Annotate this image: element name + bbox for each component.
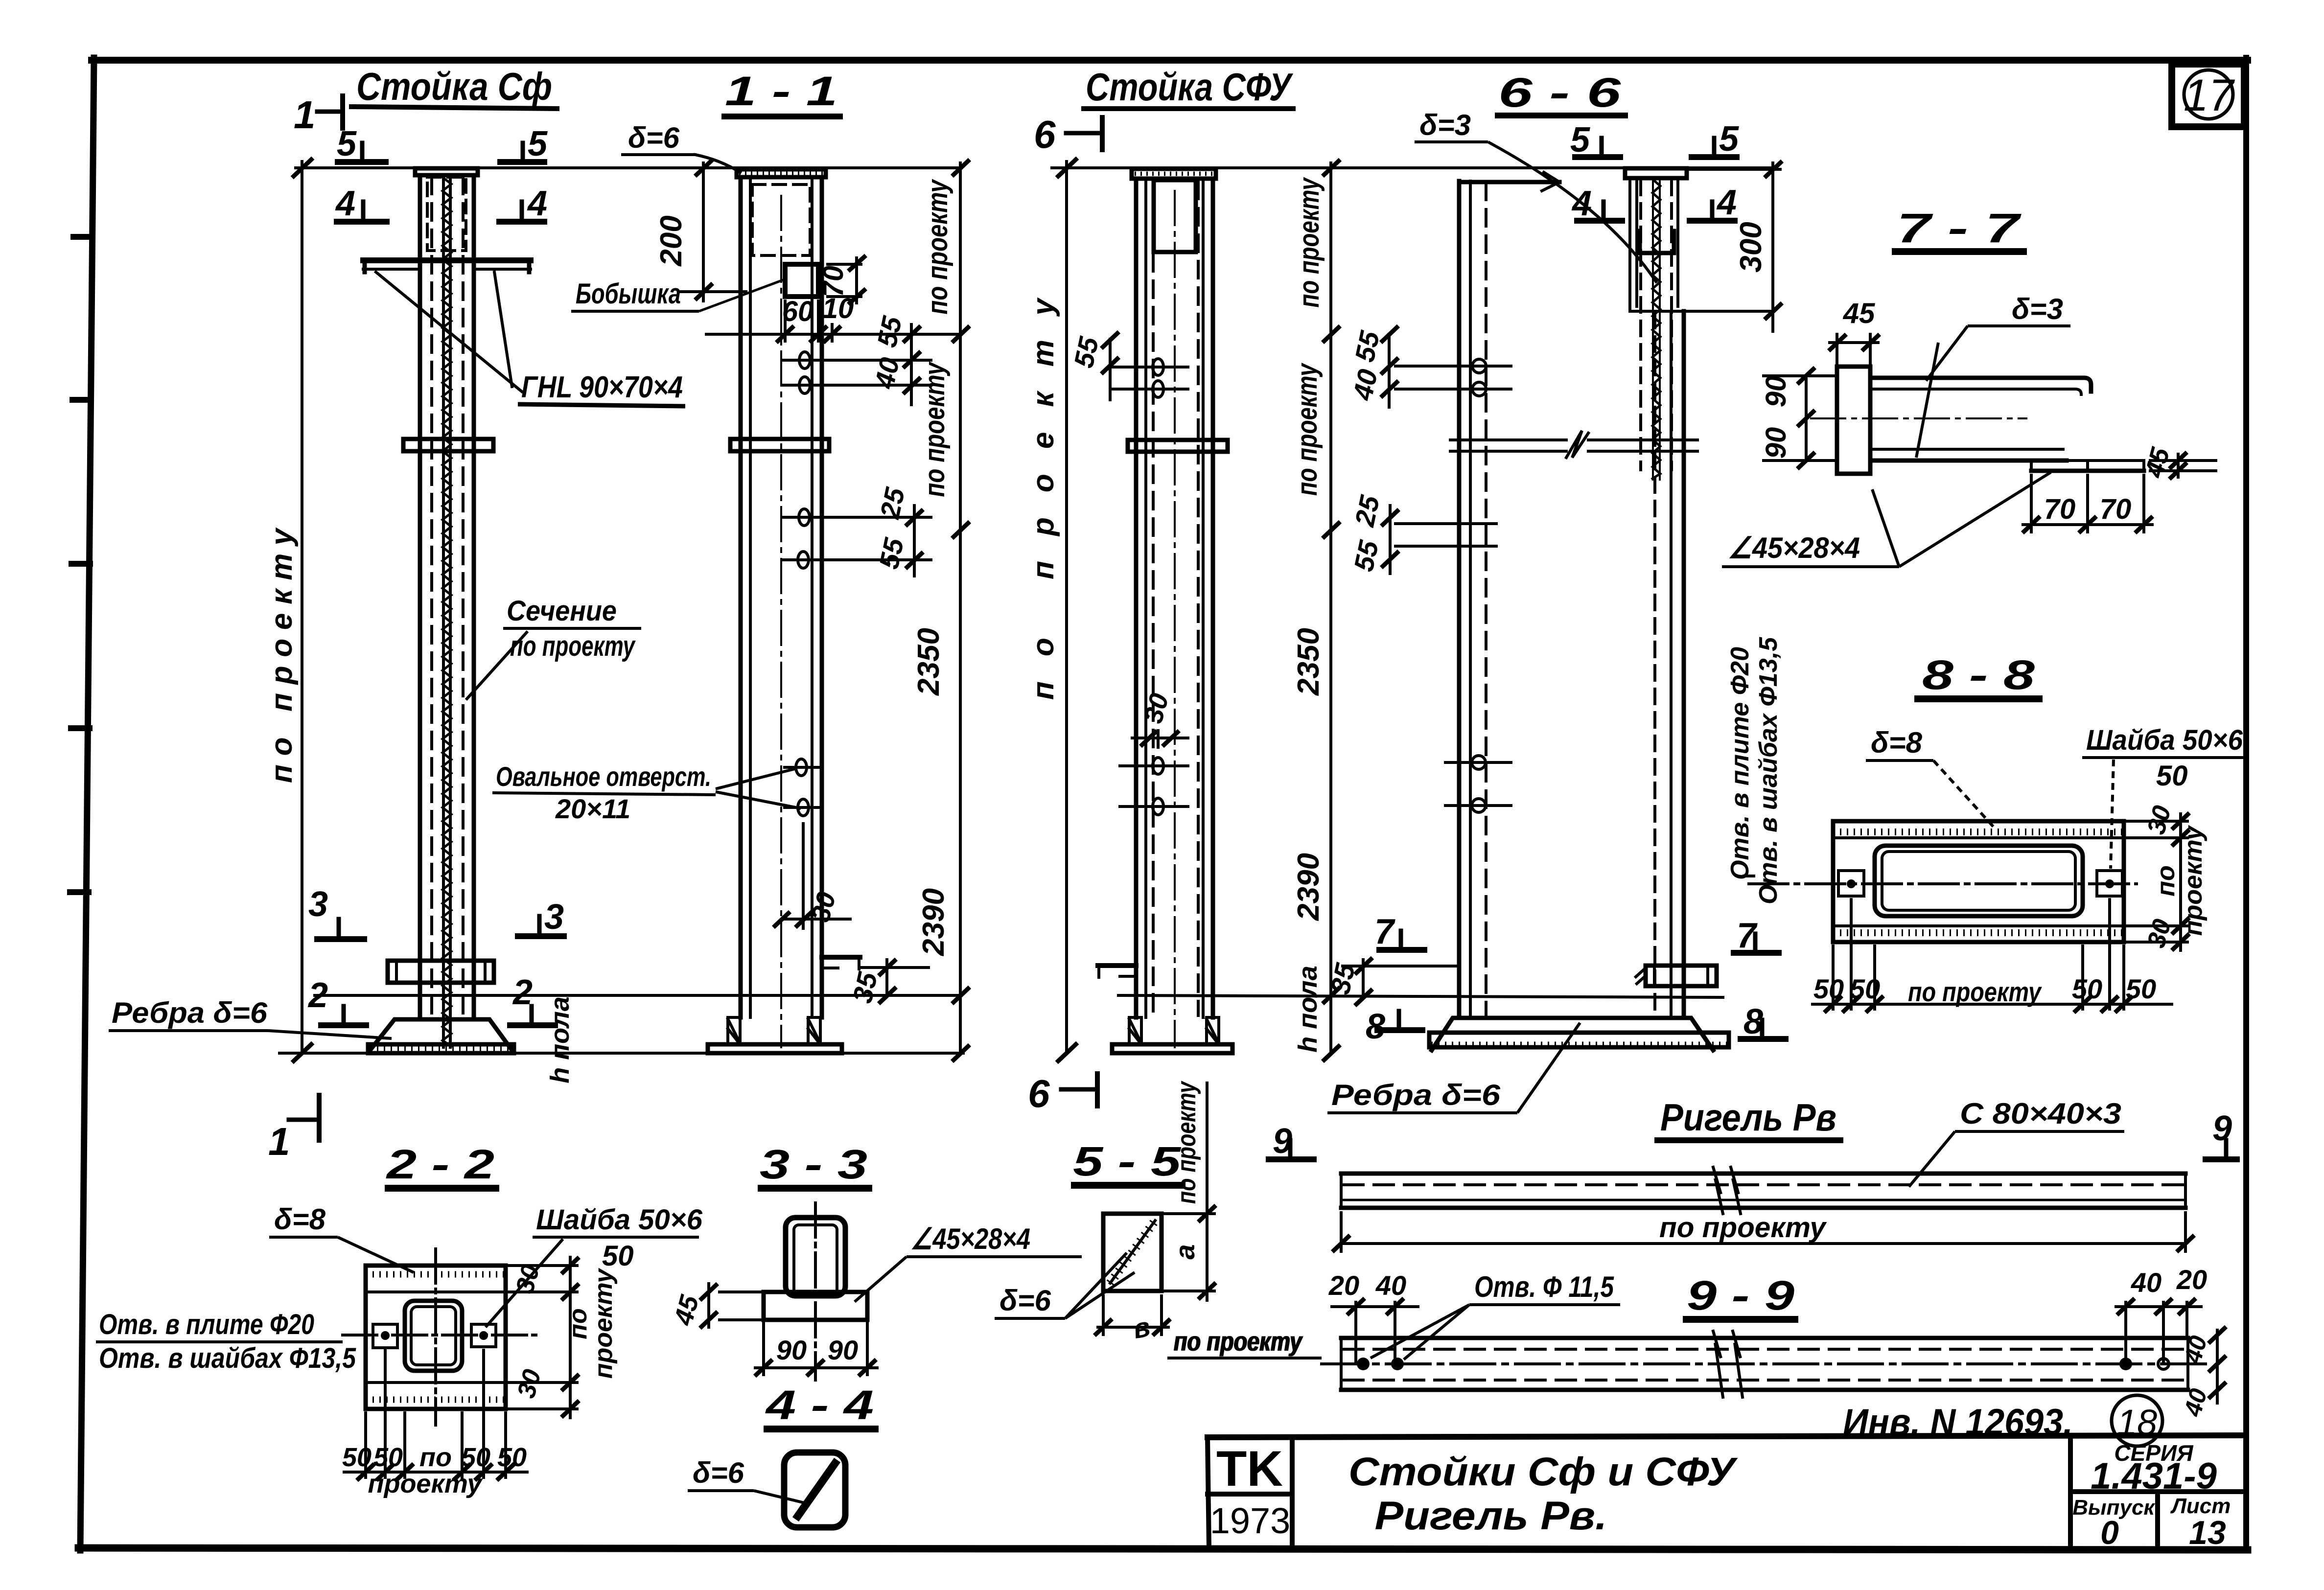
base plate — [708, 1044, 842, 1053]
inner dashed lines — [1152, 254, 1155, 1015]
svg-text:3: 3 — [308, 885, 328, 924]
top cap — [1132, 169, 1216, 179]
svg-text:6: 6 — [1034, 113, 1056, 156]
dim 300 — [1687, 161, 1782, 333]
section marker 1 bottom — [289, 1095, 319, 1140]
svg-text:40: 40 — [868, 355, 905, 392]
svg-text:20: 20 — [1328, 1270, 1359, 1301]
column SFU body — [1098, 169, 1723, 1053]
svg-text:Ригель Рв.: Ригель Рв. — [1375, 1494, 1607, 1538]
plate 2-2 — [366, 1266, 506, 1409]
flange plate — [363, 257, 531, 263]
left dim line po proektu — [301, 161, 303, 1053]
center line 3-3 — [814, 1203, 817, 1380]
svg-text:50: 50 — [373, 1443, 403, 1472]
svg-text:по проекту: по проекту — [1172, 1081, 1201, 1204]
dim 90 90 (3-3) — [754, 1322, 879, 1376]
section marker 5 right of stub — [1692, 138, 1737, 157]
svg-text:1973: 1973 — [1210, 1500, 1291, 1541]
svg-text:9: 9 — [1273, 1122, 1292, 1161]
channel horizontal — [1870, 378, 2091, 392]
svg-text:3 - 3: 3 - 3 — [760, 1141, 867, 1187]
threaded rod of stub — [1652, 178, 1654, 480]
right wall from y636 — [1630, 310, 1773, 313]
angle bracket right — [822, 955, 860, 960]
SFU holes upper pair — [1153, 359, 1163, 815]
section marker 5 left of stub — [1575, 138, 1620, 157]
inner tube top stub — [1625, 168, 1687, 178]
svg-text:1 - 1: 1 - 1 — [725, 68, 837, 114]
svg-text:7: 7 — [1737, 916, 1758, 955]
svg-text:8: 8 — [1743, 1002, 1763, 1041]
svg-text:40: 40 — [1375, 1270, 1406, 1301]
svg-text:по проекту: по проекту — [510, 630, 636, 662]
svg-text:∠45×28×4: ∠45×28×4 — [910, 1222, 1030, 1255]
svg-text:50: 50 — [497, 1443, 527, 1472]
svg-text:δ=8: δ=8 — [274, 1203, 326, 1236]
top extension line over SF and 1-1 — [294, 160, 960, 1061]
inner tube rounded — [1875, 846, 2083, 916]
center line — [1749, 882, 2137, 885]
bottom dims (2-2) — [343, 1349, 529, 1480]
svg-text:300: 300 — [1734, 222, 1768, 272]
center line — [780, 196, 782, 1047]
bottom angle right — [2031, 459, 2144, 462]
svg-text:6: 6 — [1028, 1072, 1050, 1115]
svg-text:Инв. N 12693.: Инв. N 12693. — [1843, 1402, 2073, 1443]
svg-text:Шайба 50×6: Шайба 50×6 — [536, 1204, 703, 1236]
svg-text:a: a — [1169, 1244, 1200, 1259]
break marks 9-9 — [1713, 1331, 1723, 1397]
hidden bobyshka dashed box — [427, 177, 466, 251]
plate outer — [1833, 821, 2124, 942]
section marker 2 left — [321, 1006, 366, 1025]
svg-text:2350: 2350 — [912, 628, 946, 696]
SFU hole leader lines — [1111, 367, 1189, 807]
svg-text:2350: 2350 — [1292, 628, 1325, 696]
svg-text:5: 5 — [1570, 120, 1590, 160]
base ribs hatched — [1129, 1017, 1141, 1044]
svg-text:50: 50 — [2126, 973, 2156, 1004]
section marker 6 top — [1066, 131, 1100, 136]
svg-text:Отв. в шайбах Ф13,5: Отв. в шайбах Ф13,5 — [99, 1342, 356, 1374]
svg-text:4: 4 — [1571, 184, 1592, 223]
svg-text:20: 20 — [2176, 1264, 2207, 1295]
svg-text:h пола: h пола — [1293, 966, 1323, 1053]
svg-text:5: 5 — [337, 124, 357, 163]
base trapezoid — [370, 1019, 512, 1050]
SFU right dim line — [1323, 160, 1340, 1061]
section marker 4 left — [337, 202, 387, 222]
svg-text:Стойка Сф: Стойка Сф — [356, 65, 552, 108]
svg-text:70: 70 — [2100, 493, 2132, 525]
svg-text:17: 17 — [2184, 70, 2235, 120]
svg-text:2390: 2390 — [1292, 853, 1325, 921]
top cap — [415, 168, 478, 175]
svg-text:Овальное отверст.: Овальное отверст. — [496, 761, 711, 792]
svg-text:5 - 5: 5 - 5 — [1073, 1138, 1182, 1184]
svg-text:2: 2 — [307, 976, 328, 1015]
svg-text:по проекту: по проекту — [1908, 976, 2042, 1007]
border frame right — [2243, 58, 2249, 1550]
inner walls — [1144, 180, 1147, 1017]
washer plate right wall bottom — [1646, 966, 1717, 986]
base ribs hatched — [728, 1017, 740, 1044]
svg-text:90: 90 — [776, 1335, 807, 1365]
section marker 2 right — [510, 1006, 555, 1025]
svg-text:δ=3: δ=3 — [1419, 109, 1471, 141]
column SF body — [279, 168, 963, 1053]
svg-text:δ=6: δ=6 — [628, 121, 680, 154]
bottom dims 8-8 — [1811, 898, 2173, 1013]
svg-text:2390: 2390 — [917, 888, 951, 956]
top cap plate — [737, 169, 826, 177]
section marker 4 left of stub — [1577, 202, 1622, 221]
ground line — [279, 1052, 963, 1055]
slot leader lines — [782, 360, 932, 807]
svg-text:6 - 6: 6 - 6 — [1498, 69, 1622, 115]
svg-text:Отв. в плите Ф20: Отв. в плите Ф20 — [1726, 647, 1754, 880]
border frame top — [92, 57, 2248, 64]
svg-text:2 - 2: 2 - 2 — [385, 1141, 494, 1187]
circled sheet number 18 — [2112, 1395, 2162, 1446]
svg-text:50: 50 — [1813, 973, 1844, 1004]
mid coupler — [730, 439, 829, 451]
svg-text:70: 70 — [2044, 493, 2076, 525]
svg-text:8 - 8: 8 - 8 — [1922, 652, 2035, 698]
svg-text:1.431-9: 1.431-9 — [2091, 1455, 2217, 1497]
svg-text:по проекту: по проекту — [265, 527, 299, 783]
svg-text:проекту: проекту — [589, 1267, 618, 1379]
binding tick 5 — [70, 889, 89, 895]
threaded rod — [442, 175, 445, 1047]
washer plate near bottom — [388, 961, 494, 983]
svg-text:проекту: проекту — [368, 1469, 483, 1498]
svg-text:Ребра δ=6: Ребра δ=6 — [1331, 1079, 1501, 1111]
svg-text:9 - 9: 9 - 9 — [1687, 1272, 1794, 1318]
bobyshka square — [785, 264, 818, 297]
holes 9-9 — [1357, 1358, 1370, 1370]
svg-text:50: 50 — [342, 1443, 372, 1472]
svg-text:δ=6: δ=6 — [693, 1456, 744, 1489]
washers 2-2 — [373, 1324, 397, 1348]
U cutout — [1640, 231, 1674, 253]
svg-text:1: 1 — [268, 1120, 290, 1163]
svg-text:TK: TK — [1216, 1441, 1283, 1497]
title block — [1208, 1435, 2246, 1549]
weld arrow line top left — [1459, 180, 1559, 184]
svg-text:40: 40 — [2131, 1267, 2161, 1298]
svg-text:δ=8: δ=8 — [1871, 726, 1923, 759]
svg-text:4 - 4: 4 - 4 — [765, 1382, 874, 1428]
hidden dashed box top — [752, 184, 810, 255]
outer walls — [739, 177, 743, 1017]
svg-text:2: 2 — [512, 973, 533, 1012]
section marker 5 top-left — [338, 143, 386, 162]
svg-text:40: 40 — [1347, 367, 1383, 403]
svg-text:Ребра δ=6: Ребра δ=6 — [112, 996, 268, 1029]
mid coupler lines with break — [1450, 438, 1566, 441]
svg-text:по: по — [564, 1308, 592, 1339]
svg-text:200: 200 — [654, 215, 688, 266]
svg-text:δ=3: δ=3 — [2012, 293, 2063, 325]
border frame bottom — [78, 1548, 2248, 1550]
tube 2-2 — [405, 1301, 462, 1371]
svg-text:ГНL 90×70×4: ГНL 90×70×4 — [521, 370, 683, 404]
outer walls — [1134, 179, 1139, 1017]
svg-text:по: по — [419, 1443, 452, 1472]
svg-text:по проекту: по проекту — [1293, 177, 1325, 307]
border frame left — [80, 58, 94, 1550]
svg-text:45: 45 — [1843, 298, 1875, 329]
section marker 3 right — [518, 916, 564, 936]
svg-text:50: 50 — [1850, 973, 1880, 1004]
svg-text:50: 50 — [602, 1240, 634, 1272]
svg-text:20×11: 20×11 — [555, 793, 630, 824]
section marker 3 left — [317, 919, 364, 939]
section marker 9 right — [2206, 1140, 2237, 1159]
svg-text:1: 1 — [294, 93, 316, 137]
top extension line SFU/6-6 — [1052, 160, 1773, 1061]
section marker 7 right — [1734, 934, 1779, 953]
break marks beam top — [1713, 1167, 1723, 1214]
flange leader lines to GNL label — [376, 272, 522, 392]
svg-text:50: 50 — [2156, 760, 2188, 792]
mid coupler — [403, 439, 493, 451]
binding tick 4 — [71, 725, 90, 731]
center line 9-9 — [1322, 1362, 2208, 1365]
tube 3-3 — [786, 1218, 845, 1296]
plate 3-3 — [764, 1292, 867, 1320]
svg-text:4: 4 — [1716, 183, 1737, 222]
svg-text:Ригель Рв: Ригель Рв — [1660, 1096, 1836, 1139]
svg-text:Отв. Ф 11,5: Отв. Ф 11,5 — [1474, 1270, 1614, 1303]
angle bracket left bottom — [1098, 963, 1136, 968]
svg-text:Бобышка: Бобышка — [576, 278, 681, 310]
section marker 9 top — [1269, 1140, 1314, 1159]
dim 70 bobyshka — [826, 255, 866, 304]
center lines 2-2 — [343, 1334, 536, 1337]
svg-text:9: 9 — [2212, 1109, 2232, 1148]
top cutout rect — [1154, 180, 1196, 252]
right dim line 1-1 — [952, 160, 970, 1061]
beam 9-9 view — [1322, 1331, 2208, 1397]
svg-text:4: 4 — [527, 184, 547, 223]
svg-text:по проекту: по проекту — [1174, 1326, 1303, 1357]
section marker 7 left — [1379, 931, 1424, 950]
svg-text:по: по — [2152, 865, 2180, 897]
section marker 4 right of stub — [1690, 202, 1735, 221]
svg-text:60: 60 — [782, 296, 814, 327]
binding tick 1 — [73, 234, 92, 240]
svg-text:h пола: h пола — [545, 996, 575, 1083]
svg-text:5: 5 — [528, 124, 548, 163]
washers — [1838, 871, 1864, 896]
section marker 8 left — [1377, 1011, 1422, 1030]
dim 200 — [679, 160, 747, 302]
svg-text:7: 7 — [1374, 912, 1395, 951]
svg-text:Отв. в шайбах Ф13,5: Отв. в шайбах Ф13,5 — [1754, 637, 1783, 904]
svg-text:0: 0 — [2100, 1514, 2119, 1551]
svg-text:проекту: проекту — [2179, 825, 2208, 936]
svg-text:по проекту: по проекту — [919, 361, 951, 497]
SFU left dim line — [1065, 161, 1068, 1053]
svg-text:по проекту: по проекту — [922, 179, 953, 314]
svg-text:Стойки Сф и СФУ: Стойки Сф и СФУ — [1348, 1450, 1738, 1494]
slots 1-1 upper pair — [796, 352, 810, 816]
svg-text:по проекту: по проекту — [1659, 1212, 1827, 1244]
page number box 17 — [2172, 64, 2244, 127]
svg-text:7 - 7: 7 - 7 — [1897, 205, 2022, 251]
svg-text:10: 10 — [822, 293, 854, 324]
binding tick 2 — [72, 397, 91, 403]
svg-text:по проекту: по проекту — [1291, 363, 1323, 496]
svg-text:8: 8 — [1366, 1007, 1385, 1046]
svg-text:50: 50 — [2072, 973, 2102, 1004]
6-6 left wall holes — [1472, 359, 1486, 812]
binding tick 3 — [71, 561, 90, 567]
svg-text:δ=6: δ=6 — [999, 1284, 1051, 1317]
section marker 1 top — [317, 110, 343, 114]
base plate — [1112, 1044, 1232, 1053]
svg-text:50: 50 — [461, 1443, 490, 1472]
svg-text:18: 18 — [2117, 1402, 2157, 1443]
svg-text:3: 3 — [544, 898, 564, 937]
beam top view — [1341, 1167, 2185, 1214]
svg-text:90: 90 — [828, 1335, 858, 1365]
svg-text:Стойка СФУ: Стойка СФУ — [1086, 65, 1294, 109]
svg-text:Шайба 50×6: Шайба 50×6 — [2086, 724, 2243, 756]
6-6 left wall — [1429, 168, 1773, 1050]
mid coupler — [1128, 440, 1228, 452]
svg-text:∠45×28×4: ∠45×28×4 — [1728, 531, 1860, 564]
svg-text:С 80×40×3: С 80×40×3 — [1960, 1097, 2121, 1130]
svg-text:90: 90 — [1760, 427, 1792, 459]
channel center line — [1811, 417, 2026, 419]
section marker 4 right — [499, 202, 544, 222]
svg-text:5: 5 — [1719, 119, 1739, 159]
section marker 5 top-right — [500, 143, 544, 162]
svg-text:Сечение: Сечение — [507, 595, 617, 627]
svg-text:90: 90 — [1760, 376, 1792, 408]
section marker 6 bottom — [1061, 1074, 1097, 1106]
floor line SFU to 6-6 — [1118, 995, 1723, 997]
outer walls — [418, 175, 422, 1019]
svg-text:4: 4 — [335, 184, 355, 223]
svg-text:13: 13 — [2189, 1514, 2226, 1551]
inner walls — [749, 179, 752, 1017]
center line — [1174, 191, 1176, 1047]
section line 2-2 floor — [313, 994, 962, 997]
beam dim po proektu — [1332, 1211, 2194, 1253]
vertical plate — [1837, 367, 1870, 474]
6-6 wide base — [1432, 1018, 1713, 1050]
inner dashed walls — [430, 177, 433, 1018]
section marker 8 right — [1741, 1020, 1786, 1039]
svg-text:Отв. в плите Ф20: Отв. в плите Ф20 — [99, 1309, 314, 1340]
